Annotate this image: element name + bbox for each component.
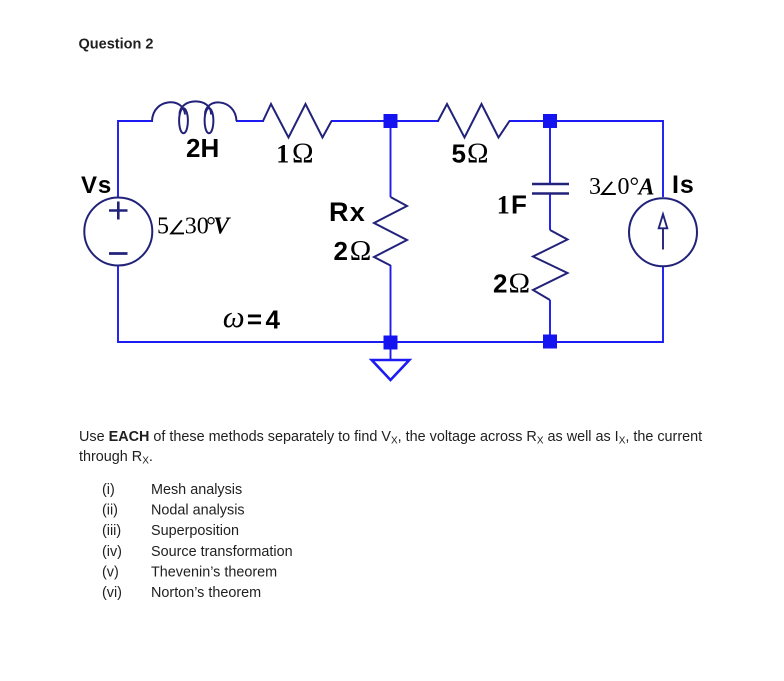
svg-text:Ω: Ω: [509, 268, 531, 300]
ground stem: [390, 349, 392, 360]
resistor 5 ohm: [438, 104, 510, 138]
svg-text:(v): (v): [102, 565, 119, 581]
svg-text:Superposition: Superposition: [151, 523, 239, 539]
svg-text:F: F: [511, 190, 527, 220]
resistor Rx vertical: [374, 197, 407, 266]
wire Rx to bottom node: [390, 265, 392, 342]
svg-text:Is: Is: [672, 171, 695, 199]
svg-text:V: V: [213, 214, 231, 240]
wire 2ohm resistor to bottom node: [549, 300, 551, 342]
wire left vertical upper: [117, 120, 119, 198]
arrow inside Is: [659, 214, 668, 249]
wire between inductor and 1ohm resistor: [236, 120, 264, 122]
inductor L1 2H: [152, 101, 237, 133]
svg-text:2: 2: [334, 236, 348, 266]
svg-text:Ω: Ω: [467, 137, 489, 169]
svg-text:0°: 0°: [618, 174, 640, 200]
current source Is circle: [629, 198, 697, 266]
label 5 angle 30 V: [157, 214, 231, 240]
svg-text:Rx: Rx: [329, 197, 366, 227]
svg-text:(vi): (vi): [102, 585, 122, 601]
svg-text:5: 5: [157, 214, 169, 240]
wire node B down to capacitor: [549, 121, 551, 183]
svg-text:(i): (i): [102, 482, 115, 498]
wire right vertical lower: [662, 267, 664, 343]
svg-text:Ω: Ω: [350, 235, 372, 267]
wire left vertical lower: [117, 265, 119, 343]
svg-text:4: 4: [266, 304, 281, 334]
svg-text:(ii): (ii): [102, 503, 118, 519]
svg-text:=: =: [247, 304, 262, 334]
capacitor C1 1F: [532, 184, 569, 194]
svg-text:(iii): (iii): [102, 523, 121, 539]
wire top left horizontal: [118, 120, 153, 122]
minus sign inside Vs: [109, 252, 128, 255]
node bottom right junction square: [543, 335, 557, 349]
svg-text:Ω: Ω: [292, 137, 314, 169]
svg-text:2H: 2H: [186, 133, 219, 163]
wire node B to top right corner: [550, 120, 663, 122]
svg-text:Thevenin’s theorem: Thevenin’s theorem: [151, 565, 277, 581]
svg-text:ω: ω: [223, 299, 245, 334]
wire 1ohm resistor to node A: [331, 120, 391, 122]
voltage source Vs circle: [84, 198, 152, 266]
label 3 angle 0 A: [589, 174, 655, 200]
plus sign inside Vs: [109, 202, 128, 220]
wire node A to 5ohm resistor: [391, 120, 439, 122]
node B top right junction square: [543, 114, 557, 128]
svg-text:1: 1: [497, 191, 510, 220]
svg-text:Norton’s theorem: Norton’s theorem: [151, 585, 261, 601]
svg-text:30: 30: [185, 214, 209, 240]
svg-text:Question 2: Question 2: [79, 36, 154, 52]
wire right vertical upper: [662, 120, 664, 197]
node A top middle junction square: [384, 114, 398, 128]
resistor 2 ohm vertical right: [533, 230, 568, 300]
svg-text:Use EACH of these methods sepa: Use EACH of these methods separately to …: [79, 429, 702, 447]
svg-text:(iv): (iv): [102, 544, 122, 560]
svg-text:5: 5: [452, 138, 466, 168]
wire capacitor to 2ohm resistor: [549, 194, 551, 230]
wire bottom horizontal: [118, 341, 663, 343]
svg-text:A: A: [637, 174, 655, 200]
svg-text:Vs: Vs: [81, 172, 112, 199]
svg-text:Mesh analysis: Mesh analysis: [151, 482, 242, 498]
svg-text:3: 3: [589, 174, 601, 200]
svg-text:1: 1: [276, 139, 289, 168]
svg-text:Nodal analysis: Nodal analysis: [151, 503, 245, 519]
wire node A down to Rx: [390, 121, 392, 197]
svg-text:Source transformation: Source transformation: [151, 544, 293, 560]
wire 5ohm resistor to node B: [509, 120, 550, 122]
ground triangle: [372, 360, 410, 380]
svg-text:through RX.: through RX.: [79, 449, 153, 467]
node bottom middle junction square: [384, 336, 398, 350]
resistor 1 ohm: [263, 104, 332, 138]
svg-text:2: 2: [493, 269, 507, 299]
